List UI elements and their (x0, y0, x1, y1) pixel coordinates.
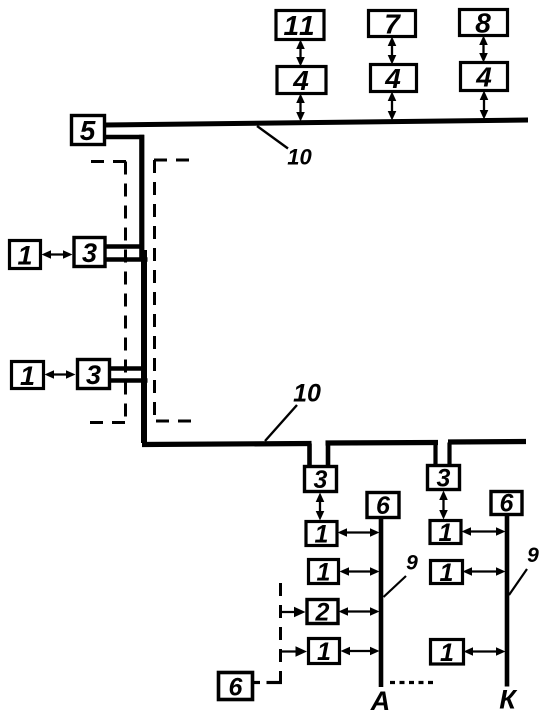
box 1 (upper left) (10, 240, 41, 270)
svg-text:К: К (499, 685, 518, 715)
label 9 (left) (384, 552, 419, 598)
svg-text:1: 1 (440, 559, 454, 587)
node K (499, 685, 518, 715)
arrow 3 to 1 (right column) (439, 491, 448, 520)
bus 10 (bottom) segment 1 (142, 444, 312, 445)
line 9 (right) (505, 515, 510, 687)
arrow 1 to line 9 (row 1) (338, 528, 380, 537)
label 10 (top) (257, 126, 312, 170)
wire: bus drop right pair to box 3 (436, 443, 450, 466)
wire: bus drop left pair to box 3 (310, 444, 329, 467)
svg-text:7: 7 (384, 9, 401, 40)
arrow 1 to line 9 (right row 2) (463, 567, 506, 576)
wire: 3 (lower) to trunk, two stubs (109, 369, 148, 381)
arrow dashed line to box 1 (3rd) (281, 646, 307, 656)
node A (370, 686, 391, 716)
arrow between 8 and 4 (479, 36, 488, 63)
svg-text:10: 10 (293, 380, 321, 408)
box 1 (right column, 1st) (430, 519, 461, 547)
svg-text:6: 6 (229, 674, 244, 702)
box 1 (left column, 1st) (306, 521, 337, 549)
wire: 3 (upper) to trunk, two stubs (105, 247, 148, 260)
svg-text:1: 1 (317, 638, 331, 666)
svg-text:1: 1 (315, 521, 329, 549)
box 8 (460, 8, 508, 39)
arrow dashed line to box 2 (281, 607, 306, 617)
box 3 (bottom right drop) (428, 465, 460, 493)
box 5 (72, 115, 105, 146)
arrow between 4 and bus (right) (480, 91, 489, 120)
svg-text:4: 4 (292, 65, 309, 96)
box 6 (left column top) (367, 492, 399, 520)
arrow 1 to line 9 (row 4) (341, 647, 380, 656)
wire: vertical trunk (upper) (139, 135, 144, 258)
box 7 (369, 9, 416, 40)
svg-text:9: 9 (406, 552, 418, 575)
box 3 (lower) (78, 360, 110, 391)
svg-text:4: 4 (475, 62, 492, 93)
box 1 (right column, 3rd) (431, 639, 464, 667)
arrow 1-3 (upper) (42, 250, 73, 259)
dotted continuation between A and K (390, 681, 433, 684)
box 3 (upper) (74, 238, 105, 269)
dashed screen right bracket (154, 160, 198, 421)
svg-text:3: 3 (437, 465, 451, 493)
arrow between 4 and bus (middle) (388, 92, 397, 121)
box 4 (under 7) (371, 63, 417, 94)
dashed service line (left) (279, 578, 282, 684)
svg-text:5: 5 (80, 115, 96, 146)
arrow 1 to line 9 (right row 1) (462, 527, 506, 536)
svg-text:3: 3 (314, 466, 328, 494)
arrow between 7 and 4 (388, 37, 397, 65)
svg-text:3: 3 (82, 238, 97, 268)
box 6 (bottom far left) (219, 673, 253, 702)
svg-text:6: 6 (500, 490, 515, 518)
svg-text:2: 2 (315, 599, 330, 627)
box 1 (right column, 2nd) (431, 559, 463, 587)
arrow 1-3 (lower) (45, 370, 76, 379)
svg-text:3: 3 (86, 360, 101, 390)
wire: box 6 to dashed line (252, 681, 282, 684)
bus 10 (bottom) segment 2 (326, 440, 439, 446)
line 9 (left) (379, 518, 384, 687)
bus 10 (top) (104, 118, 528, 128)
svg-text:1: 1 (439, 519, 453, 547)
label 10 (bottom) (265, 380, 321, 442)
svg-text:8: 8 (475, 8, 491, 39)
arrow 1 to line 9 (row 2) (340, 567, 380, 576)
label 9 (right) (509, 544, 539, 595)
box 1 (left column, 2nd) (309, 559, 339, 587)
arrow 2 to line 9 (row 3) (339, 607, 380, 616)
box 2 (307, 599, 338, 627)
arrow between 4 and bus (left) (296, 94, 305, 122)
svg-text:1: 1 (440, 639, 454, 667)
svg-text:9: 9 (527, 544, 539, 567)
svg-text:1: 1 (17, 240, 32, 270)
box 11 (276, 10, 324, 41)
svg-text:11: 11 (283, 10, 316, 41)
box 4 (under 8) (461, 62, 508, 93)
svg-text:1: 1 (317, 559, 331, 587)
svg-text:6: 6 (376, 492, 391, 520)
svg-text:1: 1 (20, 361, 35, 391)
wire: vertical trunk (lower) (141, 250, 147, 443)
svg-text:4: 4 (384, 63, 401, 94)
arrow between 11 and 4 (296, 40, 305, 67)
arrow 3 to 1 (left column) (316, 493, 325, 521)
svg-text:A: A (370, 686, 391, 716)
svg-text:10: 10 (287, 145, 312, 170)
box 3 (bottom left drop) (305, 466, 337, 494)
arrow 1 to line 9 (right row 3) (464, 647, 506, 656)
box 1 (left column, 3rd) (309, 638, 340, 666)
box 4 (under 11) (277, 65, 326, 96)
box 1 (lower left) (12, 361, 44, 391)
wire: box5 to vertical trunk (104, 135, 144, 140)
box 6 (right column top) (491, 490, 522, 518)
dashed screen left bracket (90, 162, 129, 423)
bus 10 (bottom) segment 3 (448, 439, 526, 445)
